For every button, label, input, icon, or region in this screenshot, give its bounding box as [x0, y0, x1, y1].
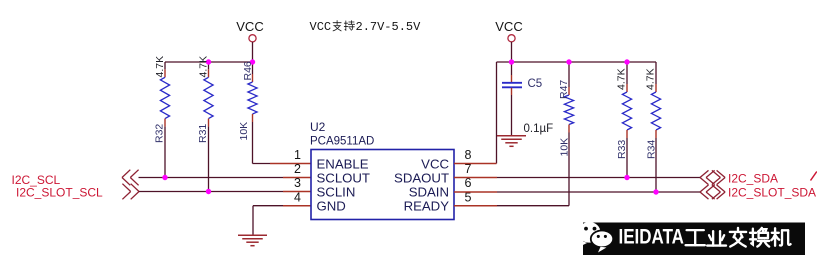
svg-text:GND: GND [317, 199, 346, 214]
svg-text:0.1µF: 0.1µF [524, 123, 554, 135]
svg-text:10K: 10K [238, 122, 250, 141]
svg-text:R33: R33 [616, 140, 628, 159]
svg-text:U2: U2 [310, 120, 326, 134]
svg-text:R34: R34 [646, 140, 658, 159]
svg-text:4.7K: 4.7K [645, 68, 657, 90]
svg-text:VCC: VCC [421, 156, 449, 171]
svg-text:3: 3 [294, 176, 301, 190]
svg-text:4.7K: 4.7K [616, 68, 628, 90]
svg-text:4.7K: 4.7K [154, 56, 166, 78]
svg-text:8: 8 [465, 148, 472, 162]
svg-text:I2C_SDA: I2C_SDA [728, 172, 778, 186]
svg-text:VCC: VCC [495, 19, 522, 34]
svg-text:R46: R46 [242, 61, 254, 80]
svg-text:PCA9511AD: PCA9511AD [310, 136, 374, 148]
svg-text:VCC: VCC [236, 19, 263, 34]
svg-text:READY: READY [404, 199, 450, 214]
svg-text:SCLIN: SCLIN [317, 184, 356, 199]
svg-text:C5: C5 [528, 78, 543, 90]
svg-text:ENABLE: ENABLE [317, 156, 369, 171]
svg-text:I2C_SLOT_SCL: I2C_SLOT_SCL [16, 185, 103, 199]
svg-text:2.7V-5.5V: 2.7V-5.5V [356, 20, 422, 34]
svg-text:10K: 10K [559, 138, 571, 157]
svg-text:SDAOUT: SDAOUT [394, 170, 449, 185]
svg-text:SDAIN: SDAIN [409, 184, 449, 199]
svg-text:I2C_SLOT_SDA: I2C_SLOT_SDA [728, 186, 816, 200]
svg-text:VCC: VCC [310, 20, 332, 34]
svg-text:R32: R32 [154, 124, 166, 143]
svg-text:SCLOUT: SCLOUT [317, 170, 371, 185]
svg-text:2: 2 [294, 162, 301, 176]
svg-text:1: 1 [294, 148, 301, 162]
svg-text:4.7K: 4.7K [198, 56, 210, 78]
svg-text:4: 4 [294, 190, 301, 204]
svg-text:IEIDATA: IEIDATA [619, 226, 685, 249]
svg-text:R31: R31 [197, 124, 209, 143]
svg-text:R47: R47 [558, 80, 570, 99]
